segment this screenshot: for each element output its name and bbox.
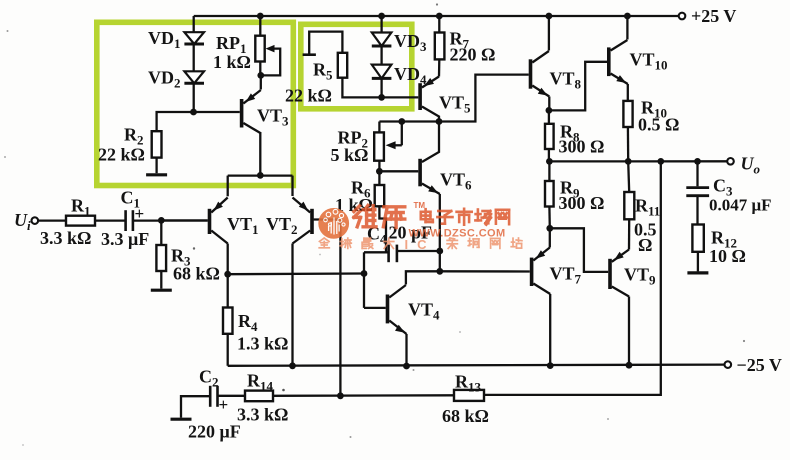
svg-text:0.047 μF: 0.047 μF <box>709 196 772 215</box>
svg-text:68 kΩ: 68 kΩ <box>173 264 220 284</box>
svg-text:−25 V: −25 V <box>737 355 782 375</box>
svg-text:300 Ω: 300 Ω <box>559 193 605 213</box>
svg-text:10 Ω: 10 Ω <box>709 246 746 266</box>
svg-text:+25 V: +25 V <box>691 6 736 26</box>
svg-text:1.3 kΩ: 1.3 kΩ <box>237 334 288 354</box>
svg-text:+: + <box>135 204 145 223</box>
svg-text:3.3 kΩ: 3.3 kΩ <box>237 405 288 425</box>
svg-text:0.5 Ω: 0.5 Ω <box>638 115 679 135</box>
svg-text:5 kΩ: 5 kΩ <box>331 145 369 165</box>
svg-text:1 kΩ: 1 kΩ <box>213 52 251 72</box>
svg-text:220 μF: 220 μF <box>188 422 241 442</box>
svg-text:22 kΩ: 22 kΩ <box>285 86 332 106</box>
svg-text:22 kΩ: 22 kΩ <box>98 145 145 165</box>
svg-text:Ω: Ω <box>638 235 652 255</box>
svg-text:220 Ω: 220 Ω <box>450 45 496 65</box>
svg-text:300 Ω: 300 Ω <box>559 137 605 157</box>
svg-text:IC: IC <box>405 237 436 252</box>
svg-text:3.3 μF: 3.3 μF <box>101 229 149 249</box>
svg-text:3.3 kΩ: 3.3 kΩ <box>40 228 91 248</box>
svg-text:68 kΩ: 68 kΩ <box>442 406 489 426</box>
svg-text:+: + <box>219 395 229 414</box>
svg-text:TM: TM <box>414 201 426 210</box>
